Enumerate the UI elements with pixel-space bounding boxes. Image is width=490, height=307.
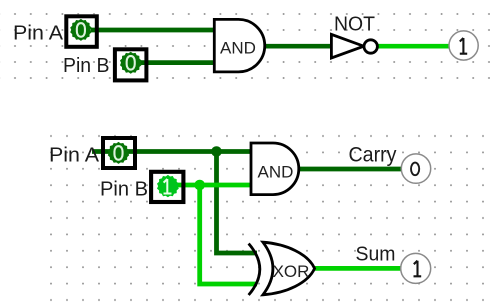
svg-text:AND: AND bbox=[258, 163, 294, 182]
NOT gate (top circuit) bbox=[331, 13, 377, 58]
junction node on Pin A wire (bottom) bbox=[211, 146, 222, 157]
wire XOR output to Sum output pin (bottom) bbox=[312, 266, 402, 271]
svg-text:Carry: Carry bbox=[349, 143, 397, 166]
svg-text:XOR: XOR bbox=[273, 262, 310, 281]
AND gate (bottom circuit) bbox=[251, 143, 299, 195]
wire Pin A (bottom) to AND gate input 1 bbox=[92, 149, 252, 154]
wire junction down to XOR gate input 1 (bottom) bbox=[217, 152, 258, 254]
output pin "Carry" (bottom circuit), value 0 bbox=[349, 143, 431, 183]
output pin "Sum" (bottom circuit), value 1 bbox=[356, 242, 431, 283]
input pin "Pin A" (top circuit), value 0 bbox=[13, 16, 97, 47]
wire Pin B (bottom) to AND gate input 2 bbox=[168, 183, 252, 188]
svg-text:Pin A: Pin A bbox=[13, 23, 64, 45]
wire Pin B (top) to AND gate input 2 bbox=[140, 60, 215, 65]
svg-text:Pin B: Pin B bbox=[100, 179, 148, 201]
wire AND output to NOT input (top) bbox=[263, 44, 332, 49]
svg-text:Pin B: Pin B bbox=[63, 55, 110, 77]
wire AND output to Carry output pin (bottom) bbox=[297, 167, 403, 172]
AND gate (top circuit) bbox=[214, 19, 264, 72]
output pin (top circuit), value 1 bbox=[449, 31, 478, 60]
svg-text:AND: AND bbox=[220, 38, 256, 57]
input pin "Pin B" (top circuit), value 0 bbox=[63, 49, 146, 80]
svg-text:Sum: Sum bbox=[356, 242, 396, 265]
junction node on Pin B wire (bottom) bbox=[194, 180, 205, 191]
pin box interiors (white fills under wires) bbox=[64, 14, 185, 204]
wire NOT output to output pin (top), value 1 bbox=[376, 44, 450, 49]
svg-text:NOT: NOT bbox=[334, 13, 375, 35]
XOR gate (bottom circuit) bbox=[249, 242, 315, 295]
input pin "Pin A" (bottom circuit), value 0 bbox=[49, 138, 135, 168]
wire junction down to XOR gate input 2 (bottom) bbox=[200, 185, 257, 284]
wire Pin A (top) to AND gate input 1 bbox=[91, 28, 215, 33]
input pin "Pin B" (bottom circuit), value 1 bbox=[100, 172, 183, 202]
svg-text:Pin A: Pin A bbox=[49, 144, 100, 166]
